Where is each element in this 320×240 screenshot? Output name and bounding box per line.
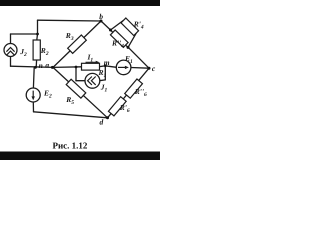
node c bbox=[148, 67, 151, 70]
resistor R''4 lower bbox=[110, 30, 128, 47]
svg-text:Рис. 1.12: Рис. 1.12 bbox=[53, 141, 88, 151]
wire E2 top lead bbox=[32, 67, 35, 88]
resistor R'4 upper bbox=[121, 18, 139, 36]
wire bottom rail bbox=[34, 112, 108, 118]
wire top rail b bbox=[38, 19, 102, 22]
wire d-c diagonal bbox=[108, 68, 150, 118]
node m bbox=[104, 64, 107, 67]
wire E2 bottom lead bbox=[32, 102, 34, 112]
node n junction bbox=[34, 66, 37, 69]
resistor R''6 bbox=[125, 79, 143, 98]
resistor R'6 bbox=[108, 97, 126, 116]
wire J2/R2 top bbox=[11, 33, 38, 35]
node left of R1 bbox=[75, 66, 78, 69]
wire b to split node bbox=[101, 21, 111, 30]
wire bottom-left to node a bbox=[11, 66, 54, 67]
current arrow I1 bbox=[86, 61, 100, 64]
wire split to R'4 bbox=[111, 20, 124, 30]
wire R'4 to join node bbox=[128, 33, 136, 47]
wire diagonal a-d bbox=[53, 67, 108, 117]
resistor R5 bbox=[66, 79, 86, 98]
bottom scan bar bbox=[0, 152, 160, 161]
wire split through R''4 to join node bbox=[111, 30, 129, 47]
wire R1 to m bbox=[100, 65, 106, 68]
node d bbox=[106, 116, 109, 119]
node b bbox=[100, 20, 103, 23]
svg-text:d: d bbox=[100, 117, 104, 126]
top scan bar bbox=[0, 0, 160, 6]
resistor R1 bbox=[82, 63, 100, 70]
node a bbox=[51, 66, 54, 69]
wire left drop bbox=[37, 20, 39, 34]
resistor R2 bbox=[33, 40, 40, 60]
wire R2 top lead bbox=[36, 34, 39, 40]
wire J1 loop bottom left bbox=[76, 80, 86, 82]
svg-text:m: m bbox=[104, 58, 110, 67]
wire m to E1 bbox=[105, 66, 116, 68]
wire J2 top lead bbox=[10, 34, 12, 44]
wire J2 bottom lead bbox=[10, 56, 12, 66]
svg-text:a: a bbox=[45, 61, 49, 70]
wire join node to c bbox=[128, 47, 149, 68]
svg-text:n: n bbox=[39, 61, 43, 70]
wire R2 bottom lead bbox=[35, 60, 37, 67]
wire a to R1 bbox=[53, 66, 82, 69]
node at R2 top junction bbox=[36, 33, 39, 36]
wire J1 loop right bbox=[104, 66, 106, 80]
wire J1 loop left bbox=[75, 67, 77, 81]
resistor R3 bbox=[68, 35, 87, 53]
wire E1 to c bbox=[131, 67, 149, 70]
wire J1 loop bottom right bbox=[99, 79, 105, 82]
wire diagonal a-b bbox=[53, 21, 101, 67]
node join R4 bbox=[127, 46, 130, 49]
node split R4 bbox=[109, 29, 112, 32]
current source J2 bbox=[4, 44, 17, 57]
emf source E2 bbox=[26, 88, 40, 102]
emf source E1 bbox=[116, 60, 131, 75]
svg-text:b: b bbox=[99, 12, 103, 21]
current source J1 bbox=[85, 73, 100, 88]
